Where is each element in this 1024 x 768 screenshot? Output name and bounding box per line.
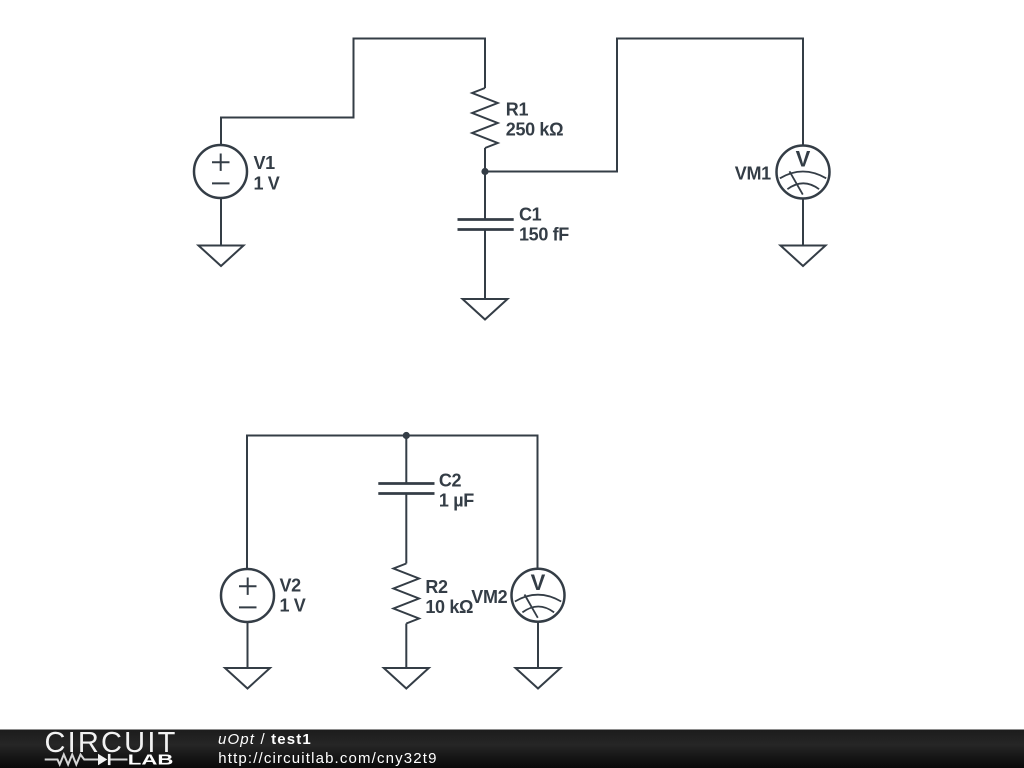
svg-text:1 V: 1 V	[280, 596, 306, 616]
wire	[802, 199, 804, 246]
svg-text:V2: V2	[280, 576, 302, 596]
ground	[225, 668, 270, 689]
wire	[220, 198, 222, 246]
wire	[247, 436, 538, 570]
wire	[405, 494, 407, 564]
svg-text:VM2: VM2	[471, 587, 507, 607]
resistor R1	[472, 88, 498, 148]
label VM1	[735, 163, 771, 183]
wire	[247, 622, 249, 668]
label C1 150 fF	[519, 204, 569, 244]
label R2 10 kOhm	[425, 577, 473, 617]
voltage source V2	[221, 569, 274, 622]
capacitor C1	[458, 220, 514, 230]
svg-text:1 µF: 1 µF	[439, 491, 474, 511]
footer url	[218, 750, 437, 767]
footer bar	[0, 730, 1024, 768]
CircuitLab logo text CIRCUIT	[45, 727, 178, 759]
footer title uOpt / test1	[218, 731, 312, 748]
wire	[405, 436, 407, 484]
logo text LAB	[128, 752, 174, 768]
ground	[516, 668, 561, 689]
label C2 1 uF	[439, 470, 474, 510]
svg-text:uOpt / test1: uOpt / test1	[218, 731, 312, 748]
label VM2	[471, 587, 507, 607]
svg-text:LAB: LAB	[128, 752, 174, 768]
svg-text:10 kΩ: 10 kΩ	[425, 597, 473, 617]
node junction	[481, 168, 488, 175]
svg-text:150 fF: 150 fF	[519, 224, 569, 244]
svg-text:V: V	[796, 147, 811, 172]
svg-text:1 V: 1 V	[254, 173, 280, 193]
wire	[485, 39, 803, 172]
node junction	[403, 432, 410, 439]
voltmeter VM2	[512, 569, 565, 622]
voltage source V1	[194, 145, 247, 198]
wire	[484, 148, 486, 172]
wire	[484, 172, 486, 220]
resistor R2	[394, 564, 420, 624]
wire	[484, 230, 486, 300]
voltmeter VM1	[777, 146, 830, 199]
svg-text:V: V	[531, 570, 546, 595]
svg-text:C2: C2	[439, 470, 462, 490]
logo resistor zigzag	[45, 755, 98, 765]
label V1 1 V	[254, 153, 280, 193]
logo diode	[98, 754, 128, 765]
svg-text:C1: C1	[519, 204, 542, 224]
label R1 250 kOhm	[506, 100, 563, 140]
svg-text:V1: V1	[254, 153, 276, 173]
label V2 1 V	[280, 576, 306, 616]
ground	[781, 246, 826, 267]
ground	[463, 299, 508, 320]
svg-text:R2: R2	[425, 577, 448, 597]
wire	[405, 624, 407, 669]
capacitor C2	[378, 484, 434, 494]
svg-text:VM1: VM1	[735, 163, 771, 183]
ground	[384, 668, 429, 689]
svg-text:250 kΩ: 250 kΩ	[506, 120, 563, 140]
ground	[199, 246, 244, 267]
wire	[537, 622, 539, 669]
svg-text:http://circuitlab.com/cny32t9: http://circuitlab.com/cny32t9	[218, 750, 437, 767]
svg-text:R1: R1	[506, 100, 529, 120]
wire	[221, 39, 485, 146]
